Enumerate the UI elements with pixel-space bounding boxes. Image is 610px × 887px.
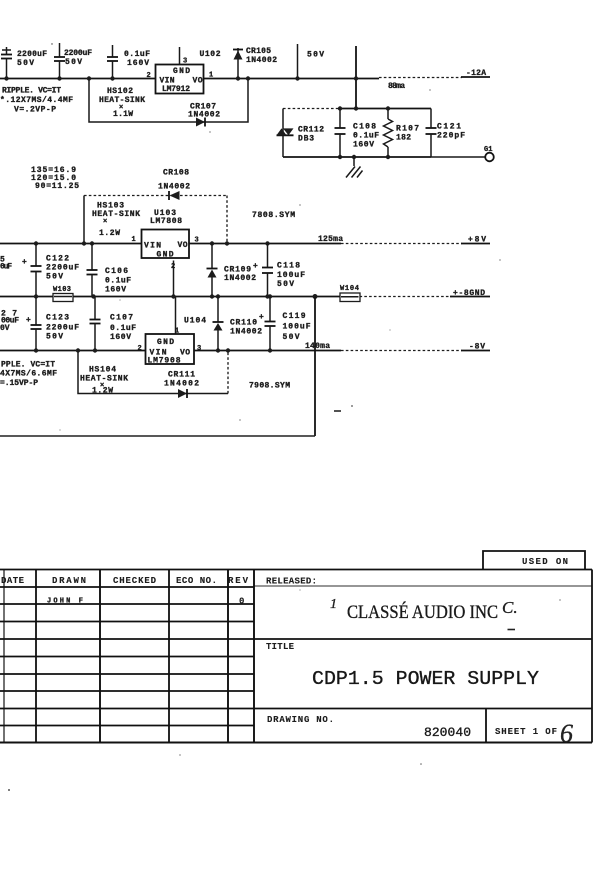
svg-text:88ma: 88ma (388, 82, 405, 91)
wire CR108 bypass loop (83, 196, 85, 244)
svg-text:1: 1 (175, 328, 179, 336)
diac CR112 DB3 (277, 134, 294, 136)
wire CR107 bypass loop (89, 79, 248, 123)
diode CR110 1N4002 (217, 297, 219, 323)
svg-text:C122: C122 (46, 255, 69, 264)
wire rail1 left segment (0, 78, 156, 80)
table row line 3 / title divider (0, 638, 592, 640)
svg-text:DRAWING NO.: DRAWING NO. (267, 715, 334, 725)
wire U104 GND to mid rail (175, 297, 177, 335)
svg-text:W104: W104 (340, 285, 359, 293)
wire rail3 end segment under -8V (461, 350, 490, 352)
wire rail1 end segment under -12A label (461, 76, 490, 78)
table row line 1 (0, 603, 254, 605)
wire mid rail solid (0, 296, 340, 298)
svg-text:+: + (22, 258, 27, 267)
table row line 8 (0, 725, 254, 727)
svg-text:2200uF: 2200uF (46, 264, 79, 273)
node dots rail3 (34, 348, 38, 352)
svg-text:0.1uF: 0.1uF (110, 324, 136, 333)
svg-text:50V: 50V (46, 273, 63, 282)
capacitor C123 2200uF 50V (35, 297, 37, 326)
svg-text:+: + (259, 313, 264, 322)
svg-text:CR112: CR112 (298, 126, 324, 135)
svg-text:C106: C106 (105, 267, 128, 276)
svg-text:LM7912: LM7912 (162, 85, 190, 94)
svg-text:GND: GND (157, 251, 174, 260)
diode CR109 1N4002 (211, 244, 213, 269)
svg-text:HEAT-SINK: HEAT-SINK (92, 210, 140, 219)
svg-text:+: + (253, 262, 258, 271)
wire ground tap down (314, 297, 316, 437)
capacitor C107 0.1uF 160V (94, 297, 96, 320)
svg-text:0: 0 (239, 597, 244, 607)
terminal G1 (431, 156, 485, 158)
diode CR107 1N4002 (196, 118, 205, 127)
svg-text:G1: G1 (484, 146, 492, 154)
diode CR105 1N4002 (237, 48, 239, 79)
svg-text:1: 1 (209, 72, 213, 80)
svg-text:U104: U104 (184, 317, 206, 326)
table bottom border (0, 742, 592, 744)
svg-text:+-8GND: +-8GND (453, 289, 485, 298)
svg-text:LM7908: LM7908 (148, 357, 181, 366)
svg-text:C107: C107 (110, 314, 133, 323)
svg-text:7808.SYM: 7808.SYM (252, 211, 295, 220)
svg-text:C118: C118 (277, 262, 300, 271)
op-amp U103 regulator box (142, 230, 190, 259)
table row line 2 (0, 621, 254, 623)
wire rail1 dashed run to -12A (379, 77, 462, 79)
wire mid rail dashed run (360, 296, 453, 298)
svg-text:CR110: CR110 (230, 319, 257, 328)
capacitor 2200uF 50V (leftmost) (2, 49, 11, 51)
wire U103 GND to mid rail (173, 261, 175, 297)
capacitor C106 0.1uF 160V (91, 244, 93, 271)
svg-text:220pF: 220pF (437, 132, 465, 141)
svg-text:160V: 160V (110, 333, 131, 342)
svg-text:2200uF: 2200uF (17, 50, 47, 59)
vertical ECO/REV (227, 570, 229, 743)
op-amp U102 regulator LM7912 box (156, 65, 204, 94)
svg-text:125ma: 125ma (318, 235, 343, 244)
capacitor C121 220pF (430, 109, 432, 129)
svg-text:1: 1 (330, 597, 337, 612)
svg-text:1N4002: 1N4002 (164, 380, 199, 389)
vertical DRAWN/CHECKED (99, 570, 101, 743)
wire mid rail end segment (450, 296, 490, 298)
svg-text:W103: W103 (53, 286, 71, 294)
released underline (254, 585, 592, 587)
svg-text:CR108: CR108 (163, 169, 189, 178)
wire bottom return line (0, 435, 315, 437)
svg-text:V=.2VP-P: V=.2VP-P (14, 106, 56, 115)
op-amp U104 regulator LM7908 box (146, 334, 195, 364)
wire feed to diac box (355, 46, 357, 109)
svg-text:C123: C123 (46, 314, 69, 323)
svg-text:USED ON: USED ON (522, 557, 568, 567)
svg-text:160V: 160V (353, 141, 374, 150)
svg-text:VO: VO (180, 349, 190, 358)
svg-text:VO: VO (178, 241, 188, 250)
wire rail3 output segment (194, 350, 341, 352)
svg-text:1N4002: 1N4002 (158, 183, 190, 192)
resistor R107 182 (387, 109, 389, 120)
svg-text:C121: C121 (437, 123, 461, 132)
svg-text:2200uF: 2200uF (64, 49, 92, 58)
node dots mid rail (34, 294, 38, 298)
vertical CHECKED/ECO (168, 570, 170, 743)
svg-text:50V: 50V (307, 51, 324, 60)
svg-text:-8V: -8V (469, 343, 485, 352)
svg-text:CHECKED: CHECKED (113, 576, 157, 586)
wire rail2 output segment (189, 243, 341, 245)
wire diac box bottom rail (283, 156, 431, 158)
diode CR111 1N4002 (178, 389, 187, 398)
ground (353, 157, 355, 166)
svg-text:RIPPLE. VC=IT: RIPPLE. VC=IT (2, 87, 61, 96)
wire rail2 end segment under +8V (461, 243, 490, 245)
svg-text:820040: 820040 (424, 725, 471, 740)
svg-text:DB3: DB3 (298, 135, 314, 144)
svg-text:GND: GND (173, 67, 190, 76)
svg-text:0V: 0V (0, 324, 10, 333)
table row line 4 (0, 656, 254, 658)
svg-text:RELEASED:: RELEASED: (266, 577, 317, 587)
svg-text:DRAWN: DRAWN (52, 576, 86, 586)
capacitor C118 100uF 50V (267, 244, 269, 268)
svg-text:90=11.25: 90=11.25 (35, 182, 79, 191)
svg-text:160V: 160V (105, 286, 126, 295)
svg-text:0uF: 0uF (0, 263, 12, 272)
svg-text:C108: C108 (353, 123, 376, 132)
svg-text:VO: VO (193, 77, 203, 86)
svg-text:C119: C119 (283, 312, 306, 321)
svg-text:1N4002: 1N4002 (246, 56, 277, 65)
svg-text:1.1W: 1.1W (113, 110, 133, 119)
diode CR108 1N4002 (170, 191, 180, 200)
vertical DATE/DRAWN (35, 570, 37, 743)
svg-text:0.1uF: 0.1uF (353, 132, 379, 141)
node 50V stub (297, 44, 299, 79)
svg-text:CR111: CR111 (168, 371, 195, 380)
svg-text:50V: 50V (65, 58, 82, 67)
capacitor 2200uF 50V (second) (59, 43, 61, 57)
node dots on rail1 (4, 76, 8, 80)
svg-text:*.12X7MS/4.4MF: *.12X7MS/4.4MF (0, 96, 73, 105)
svg-text:-12A: -12A (466, 69, 486, 78)
svg-text:R107: R107 (396, 125, 419, 134)
svg-text:TITLE: TITLE (266, 642, 295, 652)
svg-text:50V: 50V (277, 280, 294, 289)
svg-text:HS104: HS104 (89, 366, 116, 375)
svg-text:×: × (103, 218, 107, 226)
svg-text:+: + (26, 316, 31, 325)
svg-text:HS102: HS102 (107, 87, 133, 96)
svg-text:SHEET 1 OF: SHEET 1 OF (495, 727, 557, 737)
svg-text:2200uF: 2200uF (46, 324, 79, 333)
USED ON box (483, 551, 585, 570)
svg-text:2: 2 (138, 345, 142, 353)
svg-text:VIN: VIN (144, 242, 161, 251)
svg-text:CR105: CR105 (246, 47, 271, 56)
wire rail2 dashed run (341, 243, 462, 245)
svg-text:1N4002: 1N4002 (224, 274, 256, 283)
table row line 7 / drawing divider (0, 708, 592, 710)
wire rail3 VIN segment (0, 350, 146, 352)
capacitor 0.1uF 160V (third) (112, 45, 114, 57)
svg-text:C.: C. (502, 598, 518, 617)
jumper W104 (340, 293, 360, 302)
vertical drawing-no/sheet (485, 709, 487, 743)
jumper W103 (53, 294, 73, 302)
svg-text:0.1uF: 0.1uF (105, 277, 131, 286)
table row line 6 (0, 690, 254, 692)
svg-text:3: 3 (197, 345, 201, 353)
vertical left border (3, 570, 5, 743)
svg-text:LM7808: LM7808 (150, 217, 182, 226)
svg-text:50V: 50V (46, 333, 63, 342)
wire diac left leg (282, 109, 284, 158)
svg-text:=.15VP-P: =.15VP-P (0, 379, 38, 388)
svg-text:U102: U102 (200, 50, 221, 59)
svg-text:1.2W: 1.2W (92, 387, 113, 396)
table header bottom line (0, 586, 254, 588)
svg-text:2: 2 (147, 72, 151, 80)
svg-text:1N4002: 1N4002 (230, 328, 262, 337)
table top border (0, 569, 592, 571)
wire CR111 bypass loop (78, 351, 228, 394)
vertical right border (591, 570, 593, 743)
wire diac box top rail (283, 108, 340, 110)
capacitor C122 2200uF 50V (35, 244, 37, 267)
svg-text:CLASSÉ AUDIO INC: CLASSÉ AUDIO INC (347, 601, 498, 623)
svg-text:50V: 50V (17, 59, 34, 68)
svg-text:REV: REV (228, 576, 249, 586)
wire rail1 output segment (204, 78, 380, 80)
svg-text:50V: 50V (283, 333, 300, 342)
stray mark (334, 410, 341, 412)
node dots rail2 (34, 241, 38, 245)
svg-text:1N4002: 1N4002 (188, 111, 220, 120)
capacitor C108 0.1uF 160V (339, 109, 341, 129)
svg-text:1.2W: 1.2W (99, 229, 120, 238)
svg-text:100uF: 100uF (283, 323, 311, 332)
wire U102 GND stub (179, 47, 181, 65)
wire rail3 dashed run (341, 350, 462, 352)
svg-text:ECO NO.: ECO NO. (176, 576, 217, 586)
svg-text:6: 6 (560, 719, 573, 748)
svg-text:160V: 160V (127, 59, 149, 68)
scan speckles (51, 43, 560, 755)
svg-text:140ma: 140ma (305, 342, 330, 351)
svg-text:+8V: +8V (468, 236, 486, 245)
capacitor C119 100uF 50V (269, 297, 271, 322)
svg-text:GND: GND (157, 338, 174, 347)
table row line 5 (0, 673, 254, 675)
svg-text:182: 182 (396, 134, 411, 143)
svg-text:100uF: 100uF (277, 271, 305, 280)
vertical REV/RELEASED (253, 570, 255, 743)
svg-text:0.1uF: 0.1uF (124, 50, 150, 59)
svg-text:PPLE. VC=IT: PPLE. VC=IT (1, 361, 55, 370)
svg-text:4X7MS/6.6MF: 4X7MS/6.6MF (0, 370, 57, 379)
node feed joins top rail (354, 106, 358, 110)
svg-text:CDP1.5 POWER SUPPLY: CDP1.5 POWER SUPPLY (312, 668, 540, 690)
wire rail2 VIN segment (0, 243, 142, 245)
noise specks (8, 789, 10, 791)
svg-text:3: 3 (183, 58, 187, 66)
handwritten dash (508, 629, 516, 631)
svg-text:7908.SYM: 7908.SYM (249, 382, 290, 391)
svg-text:DATE: DATE (1, 576, 25, 586)
